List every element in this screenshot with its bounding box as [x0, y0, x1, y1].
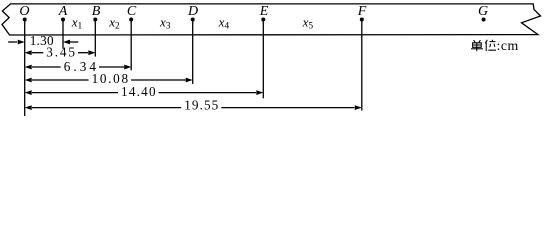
单	[474, 40, 481, 42]
unit label 单位:cm	[471, 40, 496, 52]
dimension 6.34	[25, 59, 132, 74]
label x3	[159, 14, 171, 31]
extension line B	[94, 20, 96, 57]
svg-text:O: O	[19, 4, 29, 19]
svg-text:3.45: 3.45	[46, 44, 77, 59]
svg-text:D: D	[187, 4, 198, 19]
extension line O	[24, 20, 26, 117]
extension line A	[62, 20, 64, 49]
svg-text:B: B	[92, 4, 101, 19]
dimension 1.30	[8, 33, 78, 48]
point B	[92, 4, 101, 22]
extension line E	[262, 20, 264, 99]
svg-text:G: G	[478, 4, 488, 19]
label x2	[108, 14, 120, 31]
svg-text:14.40: 14.40	[121, 84, 157, 99]
位	[485, 40, 496, 51]
point A	[58, 4, 68, 22]
point C	[127, 4, 137, 22]
dimension 14.40	[25, 84, 264, 99]
tape outline	[2, 4, 541, 35]
extension line C	[130, 20, 132, 71]
svg-text:C: C	[127, 4, 137, 19]
svg-text:E: E	[259, 4, 269, 19]
extension line F	[361, 20, 363, 111]
label x5	[302, 14, 314, 31]
point D	[187, 4, 198, 22]
point F	[357, 4, 367, 22]
dimension 10.08	[25, 71, 193, 86]
dimension 19.55	[25, 98, 362, 113]
dimension 3.45	[25, 44, 96, 59]
extension line D	[192, 20, 194, 84]
svg-text:19.55: 19.55	[184, 98, 219, 113]
svg-text::cm: :cm	[497, 38, 519, 53]
svg-text:F: F	[357, 4, 367, 19]
svg-text:A: A	[58, 4, 68, 19]
label x1	[71, 14, 83, 31]
point E	[259, 4, 269, 22]
point G	[478, 4, 488, 22]
point O	[19, 4, 29, 22]
label x4	[218, 14, 230, 31]
